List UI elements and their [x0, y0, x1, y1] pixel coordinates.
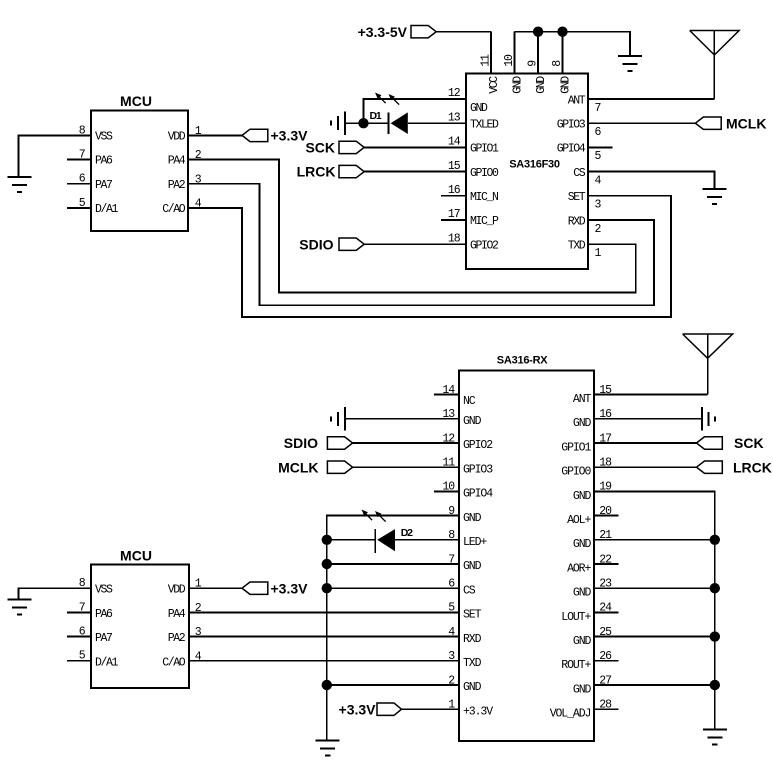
svg-text:+3.3V: +3.3V	[463, 705, 493, 718]
svg-text:+3.3-5V: +3.3-5V	[358, 24, 408, 40]
U2 pin 18 GPIO0	[561, 457, 612, 479]
antenna E1 (top)	[690, 31, 739, 100]
wire U1 pin 4 CS to ground	[588, 172, 714, 189]
svg-text:C/AO: C/AO	[162, 203, 186, 216]
junction rail / LED D2	[322, 535, 332, 545]
svg-text:SDIO: SDIO	[299, 236, 333, 252]
power flag +3.3-5V	[358, 24, 437, 40]
U1 pin 7 ANT	[568, 94, 601, 115]
svg-text:RXD: RXD	[463, 633, 482, 646]
U2 pin 19 GND	[573, 481, 612, 503]
stub U1 pin 17 MIC_P	[441, 219, 466, 221]
svg-text:GPIO0: GPIO0	[470, 167, 499, 180]
svg-text:D2: D2	[401, 527, 413, 539]
net flag MCLK (top)	[695, 115, 766, 131]
wire SCK to U1 pin 14 GPIO1	[364, 146, 466, 148]
wire U2 pin 13 GND to ground	[345, 418, 459, 420]
U2 pin 24 LOUT+	[561, 602, 612, 624]
svg-text:MCU: MCU	[120, 548, 152, 564]
wire rail to U2 pin 25 GND	[594, 636, 715, 638]
U1 pin 1 TXD	[568, 240, 602, 261]
wire +3.3V to U2 pin 1	[402, 708, 460, 710]
svg-text:PA4: PA4	[168, 608, 186, 621]
svg-text:GPIO1: GPIO1	[561, 441, 591, 454]
net flag SCK (bottom)	[697, 435, 764, 451]
U2 pin 11 GPIO3	[442, 457, 493, 477]
svg-text:+3.3V: +3.3V	[271, 128, 309, 144]
U2 pin 9 GND	[448, 505, 481, 525]
svg-text:VDD: VDD	[168, 131, 186, 144]
svg-text:C/AO: C/AO	[162, 656, 186, 669]
net flag SCK (top)	[305, 140, 364, 156]
ground (U1 CS)	[702, 189, 726, 204]
stub U1 pin 16 MIC_N	[441, 195, 466, 197]
U2 pin 13 GND	[442, 408, 481, 428]
U1 pin 9 GND (top)	[527, 32, 548, 94]
svg-text:PA2: PA2	[168, 632, 186, 645]
MCU U4 pin 6 PA7	[67, 626, 112, 646]
junction rail / pin 21 GND	[710, 535, 720, 545]
power flag +3.3V (U2 pin 1)	[339, 701, 402, 717]
power flag +3.3V (MCU U4 VDD)	[242, 580, 308, 596]
wire +3.3-5V to U1 VCC pin 11	[436, 31, 491, 33]
wire U2 pin 18 GPIO0 to LRCK	[594, 466, 697, 468]
net flag SDIO (top)	[299, 236, 364, 252]
ground (MCU U4 VSS)	[8, 599, 32, 614]
svg-text:LRCK: LRCK	[297, 164, 336, 180]
svg-text:GND: GND	[559, 76, 572, 94]
wire MCU U4 VDD to +3.3V flag	[189, 587, 242, 589]
svg-text:7: 7	[595, 102, 601, 115]
stub U1 pin 5 GPIO4	[588, 146, 613, 148]
LED D1	[370, 93, 408, 135]
svg-text:GPIO2: GPIO2	[463, 439, 493, 452]
svg-text:GPIO0: GPIO0	[561, 466, 591, 479]
wire U1 top GND pins to ground	[515, 32, 630, 56]
U1 pin 17 MIC_P	[448, 208, 499, 228]
svg-text:GND: GND	[573, 587, 592, 600]
svg-text:SET: SET	[568, 191, 586, 204]
svg-text:PA6: PA6	[95, 608, 113, 621]
U2 pin 22 AOR+	[567, 553, 612, 575]
svg-text:VSS: VSS	[95, 584, 113, 597]
U2 pin 20 AOL+	[567, 505, 612, 527]
svg-text:AOL+: AOL+	[567, 514, 591, 527]
svg-text:MIC_N: MIC_N	[470, 191, 498, 204]
wire U2 pin 9 GND to ground rail	[327, 516, 459, 741]
svg-text:GPIO3: GPIO3	[557, 119, 586, 132]
MCU U4 pin 4 C/AO	[162, 650, 202, 669]
U1 pin 5 GPIO4	[557, 143, 602, 164]
wire LED D2 cathode to rail	[327, 539, 375, 541]
MCU U3 pin 5 D/A1	[67, 197, 119, 216]
ground (MCU U3 VSS)	[8, 177, 32, 192]
U2 pin 6 CS	[448, 578, 476, 598]
U2 pin 16 GND	[573, 408, 612, 430]
svg-text:MCLK: MCLK	[726, 115, 766, 131]
junction U1 pin 9 GND	[533, 27, 543, 37]
junction rail / pin 23 GND	[710, 583, 720, 593]
svg-text:D1: D1	[370, 110, 382, 122]
wire U2 pin 17 GPIO1 to SCK	[594, 442, 697, 444]
svg-text:GPIO4: GPIO4	[463, 488, 493, 501]
svg-text:PA6: PA6	[95, 155, 113, 168]
svg-text:CS: CS	[463, 584, 476, 597]
stub U2 pin 14 NC	[434, 394, 459, 396]
MCU U3 pin 3 PA2	[168, 173, 202, 192]
MCU U4 pin 7 PA6	[67, 601, 113, 621]
MCU U4 (bottom microcontroller) body	[91, 548, 189, 689]
MCU U4 pin 3 PA2	[168, 626, 202, 645]
svg-text:MCU: MCU	[120, 93, 152, 109]
junction rail / pin 25 GND	[710, 631, 720, 641]
U2 pin 8 LED+	[448, 529, 487, 549]
U1 pin 11 VCC (top)	[480, 32, 501, 94]
U2 pin 17 GPIO1	[561, 432, 611, 454]
svg-text:+3.3V: +3.3V	[339, 701, 377, 717]
wire U1 pin 12 GND to node A	[364, 99, 467, 123]
wire MCU U3 VSS to ground	[19, 135, 92, 176]
wire U1 pin 3 SET to MCU C/AO	[188, 196, 671, 317]
U2 pin 27 GND	[573, 674, 611, 696]
wire node A to LED D1 cathode	[364, 122, 388, 124]
wire MCU U4 PA4 to U2 pin 5 SET	[189, 611, 459, 613]
svg-text:+3.3V: +3.3V	[271, 580, 309, 596]
stub U2 pin 26 ROUT+	[594, 660, 619, 662]
net flag SDIO (bottom)	[284, 435, 353, 451]
svg-text:GND: GND	[573, 635, 592, 648]
svg-text:LED+: LED+	[463, 536, 487, 549]
svg-text:ANT: ANT	[568, 94, 586, 107]
LED D2	[362, 510, 414, 553]
ground (U1 top GND pins)	[618, 56, 642, 71]
U2 pin 1 +3.3V	[448, 699, 493, 719]
svg-text:TXD: TXD	[568, 240, 586, 253]
MCU U3 pin 4 C/AO	[162, 198, 202, 217]
ground (U2 pin 16, rotated right)	[702, 407, 715, 431]
U2 pin 25 GND	[573, 626, 612, 648]
wire rail to U2 pin 2 GND	[327, 684, 459, 686]
svg-text:SET: SET	[463, 609, 482, 622]
svg-text:SCK: SCK	[734, 435, 764, 451]
svg-text:GND: GND	[463, 512, 482, 525]
wire MCLK to U2 pin 11 GPIO3	[352, 466, 459, 468]
svg-text:GND: GND	[511, 76, 524, 94]
MCU U3 (top microcontroller) body	[91, 93, 188, 231]
U2 pin 12 GPIO2	[442, 432, 493, 452]
svg-text:VSS: VSS	[95, 131, 113, 144]
U2 pin 15 ANT	[573, 384, 612, 406]
U1 pin 15 GPIO0	[448, 160, 499, 180]
svg-text:ANT: ANT	[573, 393, 592, 406]
svg-text:GND: GND	[463, 681, 482, 694]
wire LED D1 anode to U1 pin 13 TXLED	[408, 122, 466, 124]
svg-text:GND: GND	[463, 415, 482, 428]
MCU U3 pin 7 PA6	[67, 149, 113, 168]
svg-text:GND: GND	[573, 417, 592, 430]
wire rail to U2 pin 27 GND	[594, 684, 715, 686]
U1 pin 12 GND	[448, 87, 488, 115]
svg-text:VOL_ADJ: VOL_ADJ	[550, 708, 591, 721]
svg-text:GPIO3: GPIO3	[463, 463, 493, 476]
ground (right rail bottom)	[703, 730, 727, 745]
MCU U4 pin 1 VDD	[168, 578, 202, 597]
svg-text:TXD: TXD	[463, 657, 482, 670]
svg-text:PA7: PA7	[95, 179, 112, 192]
svg-text:NC: NC	[463, 395, 476, 408]
stub U2 pin 28 VOL_ADJ	[594, 708, 619, 710]
U2 pin 21 GND	[573, 529, 612, 551]
svg-text:SA316-RX: SA316-RX	[497, 355, 548, 367]
svg-text:GND: GND	[463, 560, 482, 573]
wire SDIO to U1 pin 18 GPIO2	[364, 243, 466, 245]
stub U2 pin 10 GPIO4	[434, 490, 459, 492]
U2 pin 5 SET	[448, 602, 481, 622]
svg-text:PA2: PA2	[168, 179, 186, 192]
U2 pin 28 VOL_ADJ	[550, 699, 612, 721]
svg-text:PA4: PA4	[168, 155, 186, 168]
wire U1 pin 6 GPIO3 to MCLK	[588, 122, 695, 124]
U2 pin 14 NC	[442, 384, 475, 408]
wire LED D2 anode to U2 pin 8 LED+	[395, 539, 459, 541]
svg-text:GND: GND	[470, 102, 488, 115]
wire U2 pin 19 GND to ground rail	[594, 491, 715, 729]
svg-text:TXLED: TXLED	[470, 118, 499, 131]
U2 pin 23 GND	[573, 578, 612, 600]
svg-text:RXD: RXD	[568, 215, 586, 228]
U2 pin 7 GND	[448, 553, 481, 573]
antenna E2 (bottom)	[683, 334, 733, 395]
junction rail / pin 7 GND	[322, 559, 332, 569]
svg-text:VCC: VCC	[488, 76, 501, 94]
U1 pin 18 GPIO2	[448, 232, 499, 252]
IC U1 SA316F30 body	[466, 74, 588, 270]
ground (node A, rotated left)	[331, 111, 363, 135]
svg-text:ROUT+: ROUT+	[561, 659, 591, 672]
stub U2 pin 20 AOL+	[594, 515, 619, 517]
wire U1 pin 7 ANT to antenna	[588, 98, 714, 100]
wire U2 pin 15 ANT to antenna	[594, 394, 708, 396]
svg-text:GPIO2: GPIO2	[470, 239, 499, 252]
svg-text:GPIO4: GPIO4	[557, 143, 586, 156]
junction rail / pin 6 CS	[322, 583, 332, 593]
svg-text:SDIO: SDIO	[284, 435, 318, 451]
svg-text:GND: GND	[573, 538, 592, 551]
wire MCU U3 VDD to +3.3V flag	[188, 134, 242, 136]
U1 pin 4 CS	[573, 167, 601, 188]
net flag LRCK (bottom)	[697, 459, 772, 475]
U2 pin 26 ROUT+	[561, 650, 612, 672]
svg-text:VDD: VDD	[168, 584, 186, 597]
wire MCU U4 PA2 to U2 pin 4 RXD	[189, 636, 459, 638]
wire rail to U2 pin 6 CS	[327, 587, 459, 589]
svg-text:MIC_P: MIC_P	[470, 215, 499, 228]
wire rail to U2 pin 7 GND	[327, 563, 459, 565]
svg-text:D/A1: D/A1	[95, 203, 119, 216]
U2 pin 3 TXD	[448, 650, 481, 670]
U1 pin 10 GND (top)	[503, 32, 524, 94]
MCU U3 pin 8 VSS	[79, 124, 113, 143]
svg-text:D/A1: D/A1	[95, 656, 119, 669]
U2 pin 2 GND	[448, 674, 481, 694]
U1 pin 8 GND (top)	[551, 32, 572, 94]
U1 pin 16 MIC_N	[448, 184, 498, 204]
svg-text:AOR+: AOR+	[567, 562, 591, 575]
junction node A	[358, 118, 368, 128]
junction rail / pin 2 GND	[322, 680, 332, 690]
MCU U3 pin 6 PA7	[67, 173, 112, 192]
wire U2 pin 16 GND to ground	[594, 418, 702, 420]
svg-text:MCLK: MCLK	[278, 459, 318, 475]
wire SDIO to U2 pin 12 GPIO2	[352, 442, 459, 444]
wire rail to U2 pin 21 GND	[594, 539, 715, 541]
MCU U4 pin 2 PA4	[168, 602, 202, 621]
MCU U4 pin 5 D/A1	[67, 650, 119, 670]
power flag +3.3V (MCU U3 VDD)	[242, 128, 308, 144]
wire MCU U4 VSS to ground	[19, 588, 92, 599]
wire rail to U2 pin 23 GND	[594, 587, 715, 589]
svg-text:LOUT+: LOUT+	[561, 611, 591, 624]
ground (left rail bottom)	[316, 741, 340, 756]
MCU U4 pin 8 VSS	[79, 577, 113, 597]
U2 pin 10 GPIO4	[442, 481, 493, 501]
U1 pin 14 GPIO1	[448, 136, 499, 156]
svg-text:PA7: PA7	[95, 632, 112, 645]
svg-text:SCK: SCK	[305, 140, 335, 156]
U1 pin 6 GPIO3	[557, 119, 602, 140]
wire LRCK to U1 pin 15 GPIO0	[364, 171, 466, 173]
svg-text:LRCK: LRCK	[733, 459, 772, 475]
net flag LRCK (top)	[297, 164, 365, 180]
svg-text:GND: GND	[573, 683, 592, 696]
U1 pin 13 TXLED	[448, 111, 499, 131]
svg-text:CS: CS	[573, 167, 586, 180]
wire U1 pin 1 TXD to MCU PA4	[188, 160, 636, 293]
wire MCU U4 C/AO to U2 pin 3 TXD	[189, 660, 459, 662]
junction U1 pin 8 GND	[557, 27, 567, 37]
svg-text:GPIO1: GPIO1	[470, 143, 499, 156]
IC U2 SA316-RX body	[459, 355, 594, 742]
wire U1 pin 2 RXD to MCU PA2	[188, 184, 654, 305]
MCU U3 pin 2 PA4	[168, 149, 202, 168]
U1 pin 2 RXD	[568, 215, 602, 236]
stub U2 pin 24 LOUT+	[594, 611, 619, 613]
U1 pin 3 SET	[568, 191, 602, 212]
U2 pin 4 RXD	[448, 626, 481, 646]
ground (U2 pin 13, rotated left)	[331, 407, 345, 431]
junction rail / pin 27 GND	[710, 680, 720, 690]
net flag MCLK (bottom)	[278, 459, 353, 475]
svg-text:SA316F30: SA316F30	[509, 159, 560, 171]
svg-text:GND: GND	[573, 490, 592, 503]
svg-text:GND: GND	[535, 76, 548, 94]
MCU U3 pin 1 VDD	[168, 125, 202, 144]
stub U2 pin 22 AOR+	[594, 563, 619, 565]
